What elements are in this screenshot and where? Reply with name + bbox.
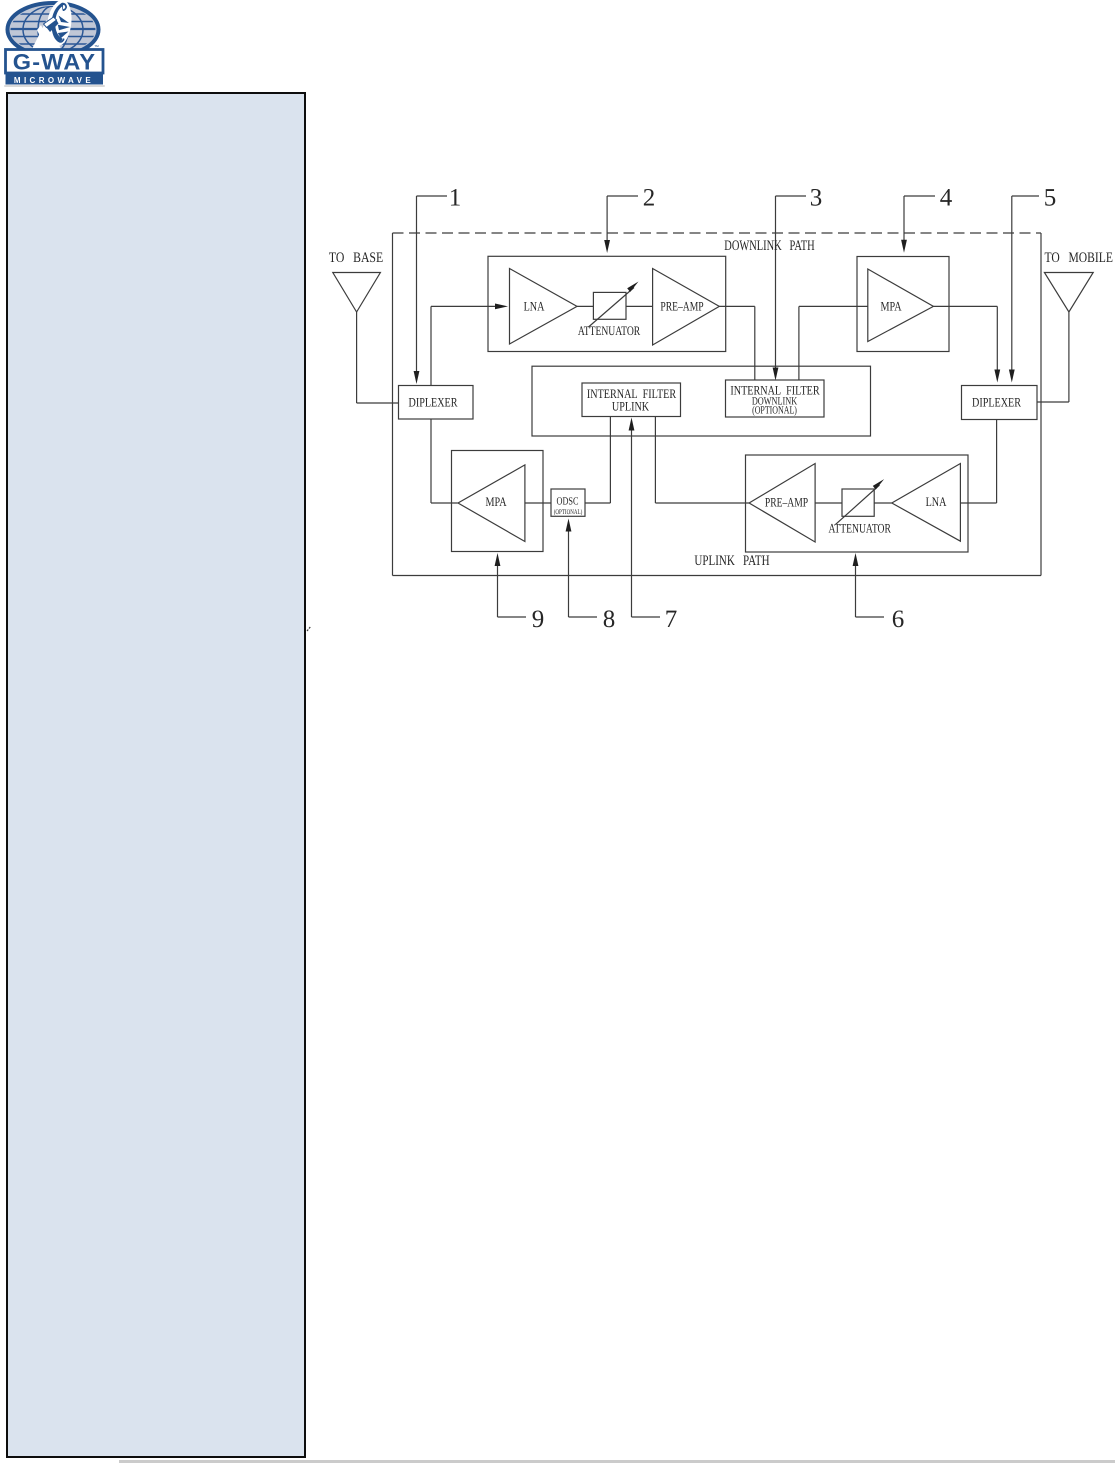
svg-text:UPLINK: UPLINK: [612, 399, 650, 414]
svg-text:8: 8: [603, 606, 616, 633]
svg-text:ATTENUATOR: ATTENUATOR: [829, 521, 892, 536]
svg-text:5: 5: [1044, 185, 1057, 212]
svg-text:ODSC: ODSC: [556, 496, 578, 508]
svg-text:(OPTIONAL): (OPTIONAL): [752, 405, 797, 417]
svg-text:UPLINK PATH: UPLINK PATH: [694, 553, 770, 569]
svg-text:4: 4: [940, 185, 953, 212]
svg-text:LNA: LNA: [926, 494, 947, 509]
svg-text:ATTENUATOR: ATTENUATOR: [578, 323, 641, 338]
svg-text:9: 9: [532, 606, 545, 633]
svg-text:TO BASE: TO BASE: [329, 250, 383, 266]
svg-text:6: 6: [892, 606, 905, 633]
svg-text:7: 7: [665, 606, 678, 633]
svg-text:DIPLEXER: DIPLEXER: [972, 395, 1021, 410]
svg-text:1: 1: [449, 185, 462, 212]
svg-text:PRE–AMP: PRE–AMP: [765, 495, 808, 510]
svg-text:LNA: LNA: [524, 299, 545, 314]
svg-text:MPA: MPA: [880, 299, 902, 314]
svg-text:MPA: MPA: [485, 494, 507, 509]
svg-text:DOWNLINK PATH: DOWNLINK PATH: [724, 238, 815, 254]
svg-text:PRE–AMP: PRE–AMP: [660, 299, 703, 314]
svg-text:(OPTIONAL): (OPTIONAL): [554, 508, 583, 516]
svg-text:DIPLEXER: DIPLEXER: [408, 395, 457, 410]
svg-text:2: 2: [643, 185, 656, 212]
svg-text:3: 3: [810, 185, 823, 212]
svg-text:TO MOBILE: TO MOBILE: [1044, 250, 1113, 266]
